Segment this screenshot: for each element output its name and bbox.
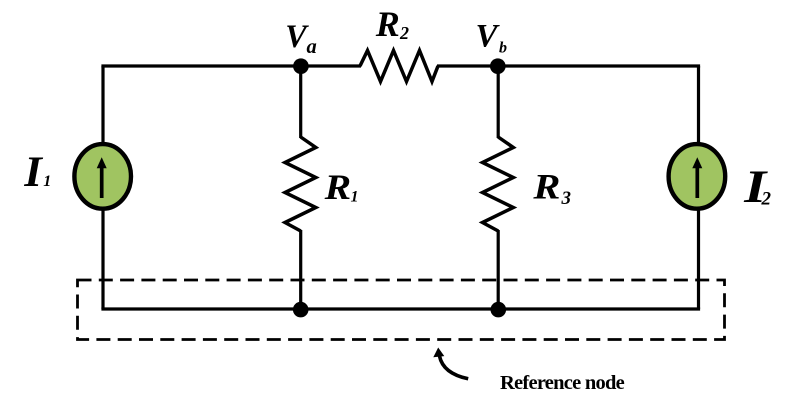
label R2 [375, 4, 409, 44]
svg-text:2: 2 [761, 189, 772, 210]
label I2 [743, 162, 771, 213]
current source I2 (green ellipse with up arrow) [669, 144, 726, 209]
label I1 [23, 148, 51, 196]
svg-text:R: R [324, 167, 352, 207]
wire: R3 bottom lead (down to bottom rail) [497, 230, 500, 309]
node Va (junction dot) [293, 58, 309, 74]
svg-text:b: b [499, 40, 507, 57]
svg-text:3: 3 [561, 188, 572, 209]
reference node boundary (dashed rectangle) [78, 280, 725, 340]
wire: right branch vertical (top-right corner down to bottom-right corner) [697, 66, 700, 309]
svg-text:a: a [307, 36, 317, 58]
node Vb (junction dot) [490, 58, 506, 74]
wire: R1 bottom lead (down to bottom rail) [299, 230, 302, 309]
label Vb [476, 19, 508, 57]
svg-text:V: V [476, 19, 501, 55]
svg-text:2: 2 [399, 23, 409, 43]
svg-text:R: R [375, 4, 400, 44]
label Va [285, 19, 316, 58]
wire: top rail right segment (R2 to corner) [437, 64, 700, 67]
svg-text:I: I [23, 148, 44, 196]
arrow pointing to reference node boundary [433, 348, 468, 379]
resistor R2 (horizontal zigzag between Va and Vb) [360, 51, 438, 82]
resistor R1 (vertical zigzag) [285, 137, 316, 231]
label R1 [324, 167, 359, 207]
svg-text:R: R [532, 167, 560, 207]
svg-text:1: 1 [351, 189, 359, 206]
resistor R3 (vertical zigzag) [483, 137, 514, 231]
junction dot: bottom rail right (R3 to reference) [491, 302, 507, 318]
wire: bottom rail [101, 307, 700, 310]
wire: R3 top lead (from node Vb down) [497, 66, 500, 138]
junction dot: bottom rail left (R1 to reference) [293, 302, 309, 318]
wire: R1 top lead (from node Va down) [299, 66, 302, 138]
wire: top rail left segment (corner to R2) [101, 64, 361, 67]
wire: left branch vertical (top-left corner down to bottom-left corner) [101, 66, 104, 309]
svg-text:Reference node: Reference node [500, 372, 625, 394]
current source I1 (green ellipse with up arrow) [74, 144, 131, 209]
svg-text:1: 1 [43, 173, 51, 190]
label R3 [532, 167, 571, 209]
